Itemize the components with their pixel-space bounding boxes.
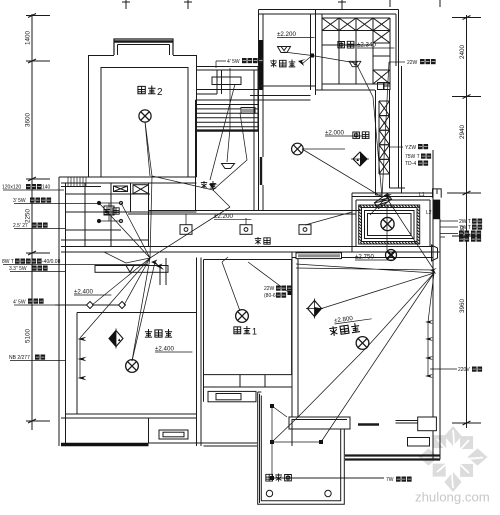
svg-text:2: 2 [157,87,163,98]
sunroom wires [272,406,384,478]
west kitchen lamp [292,143,304,155]
svg-text:±2.400: ±2.400 [74,289,93,296]
svg-text:3600: 3600 [25,113,32,128]
bay window top [114,39,173,55]
bedroom1 lamp [236,310,249,323]
svg-text:5100: 5100 [25,329,32,344]
bathroom2 lamp [381,217,394,230]
entry and master bath walls [59,177,197,446]
svg-text:220V: 220V [458,367,470,373]
svg-text:±2.200: ±2.200 [277,31,296,38]
level labels [74,31,394,353]
stairs [196,100,259,132]
sunroom junction squares [270,404,274,408]
sockets left wall [78,337,87,341]
sockets living wall [425,320,433,324]
svg-text:L2: L2 [426,210,432,216]
svg-text:3960: 3960 [459,299,466,314]
hall walls [197,67,259,71]
svg-text:75W T: 75W T [405,154,420,160]
kitchen grid [322,18,390,84]
svg-text:3.3″ 5W: 3.3″ 5W [9,266,27,272]
master bedroom diamond [109,329,123,349]
living room diamond [306,299,323,319]
left dim labels [25,31,32,344]
sunroom step band [289,417,350,429]
bedroom2 lamp [139,110,151,122]
switch run [55,302,126,309]
kitchen walls [322,10,399,15]
svg-text:▲: ▲ [117,337,121,342]
leader annotations left [2,184,148,361]
hub arrows [151,260,159,267]
left dimension line [26,14,50,431]
svg-text:8W T: 8W T [2,259,14,265]
bedroom2 walls [89,56,197,178]
junction boxes [180,225,192,235]
svg-text:L1: L1 [419,192,425,198]
watermark logo [419,426,488,492]
svg-text:3′ 5W: 3′ 5W [13,198,26,204]
bathroom2 walls [352,150,433,252]
stair lamp [222,164,235,169]
svg-text:120x120: 120x120 [2,185,21,191]
sunroom walls [258,392,345,504]
laundry walls [259,10,323,15]
west kitchen walls [196,90,264,210]
svg-text:140: 140 [42,185,51,191]
grille bar [296,253,342,259]
bedroom1 walls [201,258,292,447]
svg-text:zhulong.com: zhulong.com [415,490,490,505]
master bedroom lamp [126,360,139,373]
outer and inner walls [89,10,399,178]
west kitchen diamond [351,152,369,166]
room labels [138,86,145,93]
svg-text:±2.200: ±2.200 [214,213,233,220]
svg-text:4′ 5W: 4′ 5W [13,300,26,306]
master bedroom interior [61,258,197,447]
svg-text:4′ 5W: 4′ 5W [227,59,240,65]
exhaust fan [386,250,397,261]
bathroom2 ceiling rings [359,205,420,244]
svg-text:±2.400: ±2.400 [155,346,174,353]
svg-text:1: 1 [252,327,257,337]
bottom outer wall (dark) [61,443,149,446]
svg-text:7W T: 7W T [459,225,471,231]
svg-text:-40/0.08: -40/0.08 [42,259,61,265]
laundry funnel [278,47,291,53]
door leaf [104,252,150,263]
svg-text:TD-4: TD-4 [405,161,416,167]
meter boxes [378,83,391,90]
svg-text:2400: 2400 [459,45,466,60]
right dimension line [447,15,481,428]
panel box [433,189,442,198]
top edge ticks [122,0,440,9]
svg-text:1400: 1400 [25,31,32,46]
tilted junction [374,194,391,209]
svg-text:22W: 22W [407,60,418,66]
svg-text:▲: ▲ [356,157,360,162]
svg-text:±2.340: ±2.340 [357,42,376,49]
flue shaft [376,66,406,195]
leader annotations right [216,58,482,483]
living room walls [292,219,440,460]
living room lamp [356,337,369,350]
svg-text:±2.750: ±2.750 [355,254,374,261]
kitchen funnel [349,61,361,66]
window sill blocks [358,417,436,446]
svg-text:2250: 2250 [25,209,32,224]
corridor walls [61,211,440,258]
svg-text:±2.000: ±2.000 [325,130,344,137]
panel (solid) [433,200,440,220]
svg-text:2.5′ 27: 2.5′ 27 [13,223,28,229]
sunroom columns [266,490,331,496]
svg-text:(80-6: (80-6 [264,293,276,299]
svg-text:2940: 2940 [459,125,466,140]
svg-text:7W: 7W [386,477,394,483]
hall speaker [432,245,438,261]
svg-text:NB 2/277: NB 2/277 [9,355,30,361]
master bath fixtures [97,185,149,223]
svg-text:22W: 22W [264,286,275,292]
svg-text:YZW: YZW [405,145,416,151]
